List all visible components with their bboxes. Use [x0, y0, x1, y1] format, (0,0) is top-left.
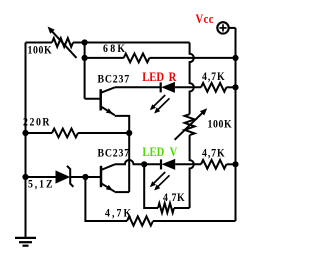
- node A dot: [141, 161, 147, 167]
- wire top to right corner: [85, 42, 190, 44]
- wire base node down to bottom: [85, 177, 127, 221]
- trimmer P1 100K horizontal: [26, 27, 85, 58]
- svg-text:5,1Z: 5,1Z: [28, 177, 54, 190]
- junction dot Q2 base: [82, 174, 88, 180]
- svg-text:100K: 100K: [208, 118, 233, 131]
- vertical wire with hops + trimmer P2: [190, 43, 194, 115]
- svg-text:LED: LED: [142, 69, 164, 84]
- svg-text:100K: 100K: [28, 43, 53, 56]
- svg-text:Vcc: Vcc: [196, 11, 214, 26]
- junction dot zener left: [22, 174, 28, 180]
- wire right rail: [235, 28, 237, 221]
- junction dot rail LED R: [232, 84, 238, 90]
- junction dot rail 68K: [232, 55, 238, 61]
- svg-text:BC237: BC237: [98, 147, 131, 160]
- trimmer P2 100K vertical: [175, 108, 208, 140]
- transistor Q1 BC237: [85, 58, 130, 133]
- LED R diode: [161, 82, 201, 93]
- wire Q1 collector to LED R: [115, 86, 161, 88]
- transistor Q2 BC237: [85, 164, 129, 192]
- resistor 4,7K (parallel loop): [144, 164, 189, 213]
- LED V emission arrows: [150, 172, 170, 191]
- svg-text:4 7K: 4 7K: [163, 191, 185, 204]
- wire node B vertical: [84, 43, 86, 58]
- svg-text:LED: LED: [142, 144, 164, 159]
- LED V diode: [161, 159, 201, 170]
- LED R emission arrows: [150, 95, 170, 114]
- svg-text:4,7K: 4,7K: [202, 147, 226, 160]
- svg-text:220R: 220R: [23, 116, 51, 129]
- wire long emitter vertical: [128, 133, 130, 192]
- resistor 4,7K (V row): [201, 160, 236, 169]
- svg-text:V: V: [170, 144, 178, 159]
- svg-text:68K: 68K: [103, 42, 127, 55]
- resistor 220R: [26, 129, 130, 138]
- junction dot emitters: [126, 130, 132, 136]
- wire trimmer bottom with hop over LED V row: [190, 135, 194, 208]
- wire Q2 collector with hop: [115, 160, 144, 164]
- zener 5,1Z: [26, 166, 86, 187]
- junction dot 220R left: [22, 130, 28, 136]
- svg-text:4,7K: 4,7K: [202, 70, 226, 83]
- Vcc terminal: [217, 22, 228, 33]
- resistor 68K: [85, 54, 236, 63]
- svg-text:4,7K: 4,7K: [105, 207, 133, 220]
- wire Vcc to rail: [229, 27, 236, 29]
- svg-text:BC237: BC237: [98, 72, 131, 85]
- resistor 4,7K (bottom): [127, 216, 236, 225]
- junction dot rail LED V: [232, 161, 238, 167]
- wire node A to LED V: [144, 163, 161, 165]
- svg-text:R: R: [169, 69, 177, 84]
- wire left ground rail: [25, 43, 27, 238]
- resistor 4,7K (R row): [201, 83, 236, 92]
- node B dots: [82, 39, 88, 61]
- ground: [15, 238, 36, 246]
